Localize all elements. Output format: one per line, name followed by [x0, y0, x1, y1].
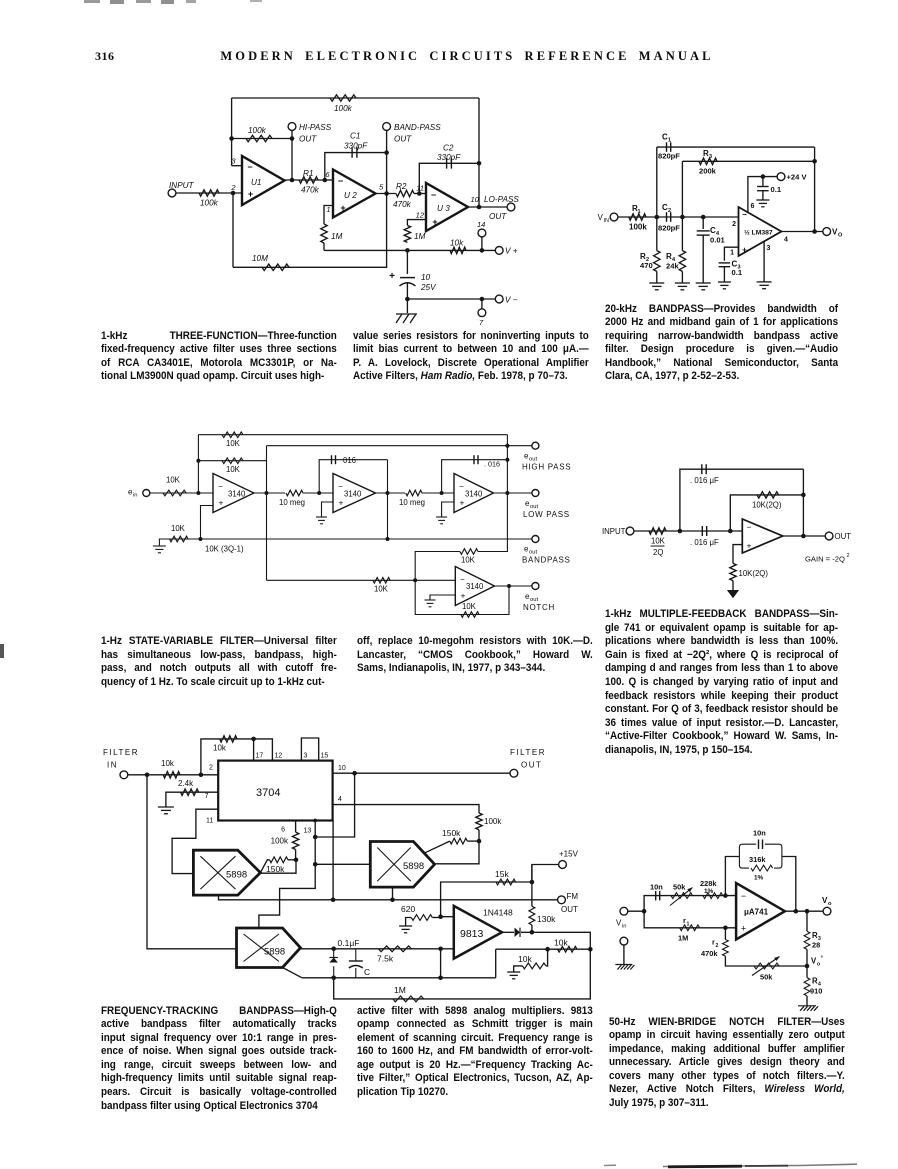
wire: A2 cap loop — [319, 460, 387, 493]
svg-text:10K: 10K — [166, 476, 181, 485]
wire: plus input to bias resistor — [733, 545, 742, 564]
junction: inverting node — [723, 893, 728, 898]
wire: 1M to V+ rail — [323, 243, 325, 250]
ground (R2) — [649, 283, 664, 290]
junction: A1 output node — [265, 491, 269, 495]
wire: U1 inverting node vertical — [231, 98, 233, 166]
junction: U2 inverting node — [323, 178, 328, 183]
svg-text:3140: 3140 — [466, 582, 484, 591]
junction: U1 output — [290, 178, 295, 183]
svg-text:50k: 50k — [760, 973, 773, 982]
svg-text:−: − — [247, 162, 252, 172]
svg-text:10K: 10K — [226, 439, 241, 448]
svg-text:1N4148: 1N4148 — [483, 908, 513, 918]
svg-text:in: in — [133, 493, 138, 499]
terminal BAND-PASS OUT — [383, 123, 442, 144]
svg-text:': ' — [821, 955, 823, 964]
wire: ground stub — [406, 299, 408, 313]
wire: feedback node to output — [260, 860, 296, 873]
op-amp 741 — [742, 519, 783, 553]
junction: feedback at output vertical — [801, 493, 806, 498]
svg-text:1M: 1M — [331, 232, 343, 241]
svg-text:10K: 10K — [462, 602, 477, 611]
svg-text:3140: 3140 — [228, 490, 246, 499]
capacitor .016 (A3) — [474, 455, 500, 469]
junction: pin 10 tap — [352, 771, 357, 776]
svg-text:10 meg: 10 meg — [399, 498, 425, 507]
junction: pin 13 at stub — [313, 819, 317, 823]
wire: output — [783, 535, 825, 537]
junction: notch summing node — [413, 578, 417, 582]
wire: divider to 10k-2 — [546, 949, 548, 966]
svg-text:o: o — [817, 962, 820, 968]
wire: pin 6 stub — [295, 821, 297, 833]
caption: 1-Hz state-variable, column A — [101, 635, 337, 689]
terminal e_out LOW PASS — [523, 490, 570, 519]
svg-text:620: 620 — [401, 904, 415, 914]
pin 13 of 3704 — [304, 828, 312, 835]
wire: top feedback run — [232, 97, 479, 99]
wire: multiplier 2 output diagonal — [424, 841, 450, 853]
resistor 10 meg (first integrator) — [279, 490, 305, 507]
junction: input node — [231, 191, 236, 196]
svg-text:1M: 1M — [678, 934, 688, 943]
resistor 10 meg (second integrator) — [399, 490, 425, 507]
svg-text:3: 3 — [304, 753, 308, 760]
junction: input node — [642, 909, 647, 914]
wire: R4 branch — [681, 217, 683, 251]
op-amp U2 — [333, 170, 376, 218]
label Vo' — [811, 955, 823, 968]
svg-text:470: 470 — [640, 261, 653, 270]
junction: 1M / capacitor node — [405, 248, 410, 253]
wire: 620 left to ground — [406, 918, 412, 926]
svg-text:5898: 5898 — [226, 870, 247, 881]
pin 15 of 3704 — [321, 753, 329, 760]
svg-text:6: 6 — [751, 203, 755, 210]
wire: multiplier 2 lower stub — [392, 887, 394, 900]
terminal OUT — [825, 532, 851, 541]
wire: feedback row 1 — [198, 434, 507, 436]
pin 3 of 3704 — [304, 753, 308, 760]
capacitor C2 330pF — [437, 144, 461, 169]
resistor 10K (notch from HP) — [373, 578, 390, 594]
svg-text:330pF: 330pF — [344, 142, 368, 151]
wire: 100k to multiplier 2 node — [478, 830, 480, 841]
label 0.1uF — [338, 938, 360, 948]
svg-text:OUT: OUT — [521, 761, 542, 770]
junction: pin 17 tap — [251, 737, 256, 742]
resistor 228k 1% — [700, 879, 723, 899]
wire: 100k local feedback row — [232, 138, 292, 140]
svg-text:−: − — [431, 190, 436, 200]
svg-text:10K: 10K — [374, 585, 389, 594]
svg-text:3: 3 — [709, 154, 712, 160]
svg-text:C1: C1 — [350, 132, 360, 141]
resistor r1 1M — [678, 916, 700, 943]
resistor 100k (input) — [199, 190, 219, 208]
junction: A2 output node — [386, 491, 390, 495]
wire: parallel combo outline — [739, 844, 782, 868]
wire: R2 to ground — [656, 271, 658, 283]
junction: diode row at 130k — [530, 930, 535, 935]
svg-text:9813: 9813 — [460, 928, 484, 940]
junction: multiplier 1 feedback node — [294, 858, 299, 863]
svg-text:BAND-PASS: BAND-PASS — [394, 123, 441, 132]
svg-text:+: + — [219, 498, 224, 508]
op-amp A2 3140 — [333, 474, 376, 513]
junction: plus drop at bottom row — [438, 976, 443, 981]
svg-text:NOTCH: NOTCH — [523, 603, 555, 612]
pin 4 output — [784, 237, 788, 244]
svg-text:10: 10 — [421, 273, 431, 282]
ground (pin 3) — [757, 282, 772, 289]
svg-text:10k: 10k — [518, 954, 532, 964]
svg-text:6: 6 — [281, 827, 285, 834]
wire: pin 17 stub — [253, 739, 255, 761]
wire: pin 11 to multiplier 1 — [172, 809, 218, 873]
svg-text:0.1μF: 0.1μF — [338, 938, 360, 948]
wire: main right vertical — [506, 435, 508, 539]
wire: non-inverting stub — [441, 948, 454, 950]
junction: R3 to output vertical — [812, 159, 817, 164]
svg-text:GAIN = -2Q: GAIN = -2Q — [805, 555, 845, 564]
wire: multiplier 2 loop — [435, 841, 479, 864]
resistor R4 910 — [804, 977, 822, 996]
junction: HP at main vertical — [505, 444, 509, 448]
svg-text:470k: 470k — [301, 186, 320, 195]
svg-text:1: 1 — [638, 209, 641, 215]
svg-text:U1: U1 — [251, 178, 261, 187]
wire: pin 7 row — [166, 792, 218, 806]
svg-text:−: − — [460, 575, 465, 584]
svg-text:10K: 10K — [461, 556, 476, 565]
capacitor 10n (feedback) — [753, 829, 766, 850]
resistor R3 200k — [699, 149, 717, 176]
junction: summing node — [196, 491, 200, 495]
capacitor C 0.1uF — [349, 949, 370, 978]
svg-text:24k: 24k — [666, 262, 679, 271]
junction: C4 node — [701, 215, 706, 220]
pin 3 ground stub — [764, 241, 770, 282]
svg-text:1%: 1% — [754, 875, 764, 882]
wire: VIN to opamp input — [618, 216, 739, 218]
pin 2 of 3704 — [209, 765, 213, 772]
svg-text:10: 10 — [338, 765, 346, 772]
svg-text:U 3: U 3 — [437, 204, 450, 213]
terminal Vo — [822, 896, 832, 915]
wire: C1 top row — [657, 146, 815, 148]
terminal e_out NOTCH — [523, 583, 555, 612]
junction: C2/R3/R4 node — [680, 215, 685, 220]
wire: U3 output to LO-PASS OUT — [468, 206, 507, 208]
svg-text:FM: FM — [567, 892, 579, 901]
svg-text:O: O — [838, 233, 843, 239]
svg-text:25V: 25V — [420, 283, 437, 292]
resistor 316k 1% — [749, 855, 774, 882]
capacitor C2 820pF — [658, 203, 680, 233]
label FM OUT — [561, 892, 578, 914]
svg-text:+: + — [461, 591, 466, 601]
junction: pin 7 node — [480, 297, 485, 302]
resistor 10K (notch from BP) — [460, 549, 478, 565]
wire: inverting stub — [441, 916, 454, 918]
junction: output node — [801, 534, 806, 539]
wire: bottom row — [302, 977, 496, 979]
junction: pin 13 at link — [313, 835, 318, 840]
pin 17 of 3704 — [256, 753, 264, 760]
resistor 10M — [252, 254, 289, 271]
wire: R4 to ground — [681, 271, 683, 283]
ground (C3) — [718, 282, 731, 289]
svg-text:+: + — [389, 271, 395, 282]
svg-text:10K(2Q): 10K(2Q) — [739, 569, 769, 578]
wire: multiplier 1 lower output — [219, 895, 562, 900]
pin 6 of U2 — [325, 170, 333, 180]
svg-text:−: − — [742, 210, 747, 219]
svg-text:. 016 μF: . 016 μF — [690, 538, 719, 547]
junction: multiplier 2 at bus — [390, 898, 395, 903]
caption: frequency-tracking bandpass, column B — [357, 1005, 593, 1100]
svg-text:4: 4 — [784, 237, 788, 244]
svg-text:HIGH PASS: HIGH PASS — [522, 463, 571, 472]
terminal V- — [495, 295, 517, 304]
wire: A3 cap loop — [442, 460, 508, 493]
resistor 10K/2Q — [649, 528, 666, 557]
wire: +15V feed — [532, 865, 559, 883]
circuit 2: 20-kHz bandpass (LM387) — [0, 0, 1, 1]
junction: C2 to right vertical — [477, 161, 482, 166]
wire: input — [634, 530, 742, 532]
ground (C4) — [696, 283, 711, 290]
capacitor C1 330pF — [344, 132, 368, 158]
page header: running title — [0, 49, 898, 64]
wire: INPUT to U1 pin 2 — [176, 192, 242, 194]
pin 3 of U1 — [231, 157, 242, 166]
resistor 1M (sweep) — [393, 985, 424, 1002]
wire: rail to capacitor — [406, 250, 408, 274]
pin 11 of U3 — [416, 184, 424, 193]
multiplier 3 5898 — [237, 928, 301, 968]
label +15V — [559, 850, 579, 859]
pin 12 of U3 — [416, 211, 425, 220]
junction: damping at A1 plus — [199, 537, 203, 541]
junction: 9813 non-inverting node — [438, 947, 443, 952]
wire: 10M row — [233, 194, 387, 268]
svg-text:. 016: . 016 — [484, 460, 500, 469]
svg-text:3: 3 — [767, 245, 771, 252]
wire: HI-PASS vertical — [291, 131, 293, 181]
svg-text:+: + — [460, 498, 465, 508]
terminal HI-PASS OUT — [288, 123, 332, 144]
wire: 10k row to plus loop — [495, 949, 497, 978]
wire: pin 10 to pin 13 link — [315, 773, 354, 837]
resistor 15k — [495, 869, 516, 885]
svg-text:15k: 15k — [495, 869, 509, 879]
wire: to A3 inverting — [422, 492, 454, 494]
svg-text:OUT: OUT — [299, 135, 317, 144]
junction: input split — [145, 773, 150, 778]
ground (A4) — [425, 600, 436, 607]
resistor 130k — [529, 906, 556, 925]
ground (output divider) — [798, 1006, 818, 1011]
svg-text:U 2: U 2 — [344, 191, 357, 200]
svg-text:BANDPASS: BANDPASS — [522, 555, 571, 564]
junction: U3 inverting node — [417, 191, 422, 196]
svg-text:1: 1 — [730, 250, 734, 257]
junction at HI-PASS node — [290, 136, 295, 141]
svg-text:100k: 100k — [248, 126, 267, 135]
caption: 20-kHz bandpass — [605, 303, 838, 385]
svg-text:016: 016 — [343, 456, 356, 465]
wire: bypass to ground — [762, 191, 764, 200]
junction: pin 14 node — [480, 248, 485, 253]
svg-text:12: 12 — [275, 753, 283, 760]
svg-text:+24 V: +24 V — [787, 173, 808, 182]
wire: to A2 inverting — [303, 492, 333, 494]
svg-text:10k: 10k — [161, 759, 175, 768]
ground (bypass) — [756, 200, 769, 207]
svg-text:100k: 100k — [334, 104, 353, 113]
wire: 620 right lead — [432, 917, 440, 919]
svg-text:+: + — [741, 924, 746, 934]
svg-text:2.4k: 2.4k — [178, 779, 194, 788]
circuit 4: 1-kHz multiple-feedback bandpass — [0, 0, 1, 1]
svg-text:7.5k: 7.5k — [377, 954, 394, 964]
resistor r2 470k — [701, 938, 728, 959]
wire: filter input row — [128, 774, 218, 776]
capacitor C3 0.1 — [719, 260, 743, 278]
svg-text:17: 17 — [256, 753, 264, 760]
capacitor 10/25V electrolytic — [389, 271, 437, 292]
wire: 9813 output — [502, 931, 514, 933]
wire: damping ground stub — [159, 539, 166, 546]
resistor 10k (3704 feedback) — [213, 736, 237, 753]
circuit 3: 1-Hz state-variable filter — [0, 0, 1, 1]
svg-text:10k: 10k — [450, 239, 464, 248]
terminal ground reference — [620, 937, 628, 945]
junction on inverting vertical — [229, 136, 234, 141]
wire: C4 branch — [702, 217, 704, 229]
terminal +24V — [777, 173, 807, 182]
resistor 10K (A4 feedback) — [461, 602, 479, 617]
ground (pin 7) — [158, 807, 174, 814]
wire: top cap branch — [680, 469, 804, 531]
svg-text:OUT: OUT — [835, 532, 852, 541]
wire: V- rail — [407, 298, 495, 300]
svg-text:INPUT: INPUT — [602, 527, 626, 536]
caption: 1-kHz three-function, column B — [353, 330, 589, 384]
junction: supply bypass node — [761, 174, 766, 179]
wire: feedback loop right — [782, 857, 796, 912]
wire: R3 branch vertical — [681, 161, 683, 217]
pin 2 of LM387 — [732, 221, 736, 228]
op-amp A4 3140 — [455, 567, 494, 606]
wire: r2 to pot row — [725, 956, 806, 966]
wire: A4 plus to ground — [430, 595, 455, 600]
pin 6 of 3704 — [281, 827, 285, 834]
circuit 1: 1-kHz three-function active filter — [0, 0, 1, 1]
svg-text:−: − — [218, 482, 223, 491]
wire: A2 output vertical (bandpass) — [387, 460, 389, 539]
wire: notch input upper — [415, 552, 460, 581]
circuit 6: 50-Hz Wien-bridge notch filter — [0, 0, 1, 1]
svg-text:10K(2Q): 10K(2Q) — [752, 501, 782, 510]
wire: right vertical from top feedback — [478, 98, 480, 207]
wire: input to multiplier 3 (long left vertical) — [147, 775, 237, 949]
junction: A2 inverting node — [317, 491, 321, 495]
svg-text:470k: 470k — [701, 949, 718, 958]
svg-text:5898: 5898 — [264, 947, 285, 958]
resistor 10K (LP feedback) — [222, 432, 243, 448]
wire: BP to notch resistor — [478, 539, 507, 552]
svg-text:820pF: 820pF — [658, 152, 680, 161]
wire: output vertical — [802, 469, 804, 536]
caption: 50-Hz Wien-bridge notch filter — [609, 1016, 845, 1111]
wire: 10K(2Q) feedback branch — [730, 495, 803, 531]
terminal VIN — [598, 213, 618, 224]
resistor 10K(2Q) bias — [730, 563, 769, 580]
ground (R4) — [675, 283, 690, 290]
svg-text:+: + — [432, 217, 437, 227]
junction: multiplier 2 feedback node — [477, 839, 482, 844]
resistor 10k (input) — [161, 759, 180, 778]
svg-text:11: 11 — [416, 184, 424, 193]
diode 1N4148 — [483, 908, 520, 938]
wire: pin 12 of U3 to 1M — [407, 220, 426, 226]
wire: HP node vertical — [266, 446, 268, 581]
terminal e_in — [128, 488, 150, 499]
svg-text:LOW PASS: LOW PASS — [523, 510, 570, 519]
wire: A1 output — [254, 492, 285, 494]
svg-text:10k: 10k — [554, 938, 568, 948]
wire: pins 3-15 strap — [301, 738, 318, 761]
junction: A4 output node — [507, 584, 511, 588]
svg-text:10: 10 — [471, 195, 480, 204]
svg-text:330pF: 330pF — [437, 153, 461, 162]
pin 14 terminal — [477, 220, 486, 250]
svg-text:R2: R2 — [396, 182, 407, 191]
resistor 7.5k — [377, 946, 411, 964]
svg-text:4: 4 — [338, 796, 342, 803]
capacitor 10n (input) — [650, 883, 663, 901]
wire: BAND-PASS vertical — [386, 131, 388, 194]
svg-text:150k: 150k — [442, 828, 461, 838]
svg-text:15: 15 — [321, 753, 329, 760]
terminal V+ — [495, 247, 517, 256]
pin 7 terminal — [478, 299, 486, 327]
wire: R2 branch — [656, 217, 658, 251]
wire: R2 to U3 pin 11 — [414, 193, 426, 195]
wire: A4 feedback loop — [415, 580, 509, 614]
wire: plus vertical — [440, 949, 442, 978]
svg-text:1: 1 — [326, 205, 330, 214]
svg-text:INPUT: INPUT — [169, 181, 195, 190]
svg-text:FILTER: FILTER — [103, 748, 139, 757]
resistor 10k (divider lower) — [518, 954, 546, 969]
wire: 10k-2 to ground — [514, 966, 523, 972]
caption: 1-Hz state-variable, column B — [357, 635, 593, 676]
junction: R1/C1/C2/R2 node — [655, 215, 660, 220]
junction: diode bottom — [331, 976, 336, 981]
wire: C3 to ground — [723, 267, 725, 282]
svg-text:OUT: OUT — [394, 135, 412, 144]
svg-text:0.01: 0.01 — [710, 236, 726, 245]
svg-text:FILTER: FILTER — [510, 748, 546, 757]
svg-text:μA741: μA741 — [744, 908, 769, 917]
svg-text:6: 6 — [325, 170, 330, 179]
svg-text:10n: 10n — [753, 829, 766, 838]
